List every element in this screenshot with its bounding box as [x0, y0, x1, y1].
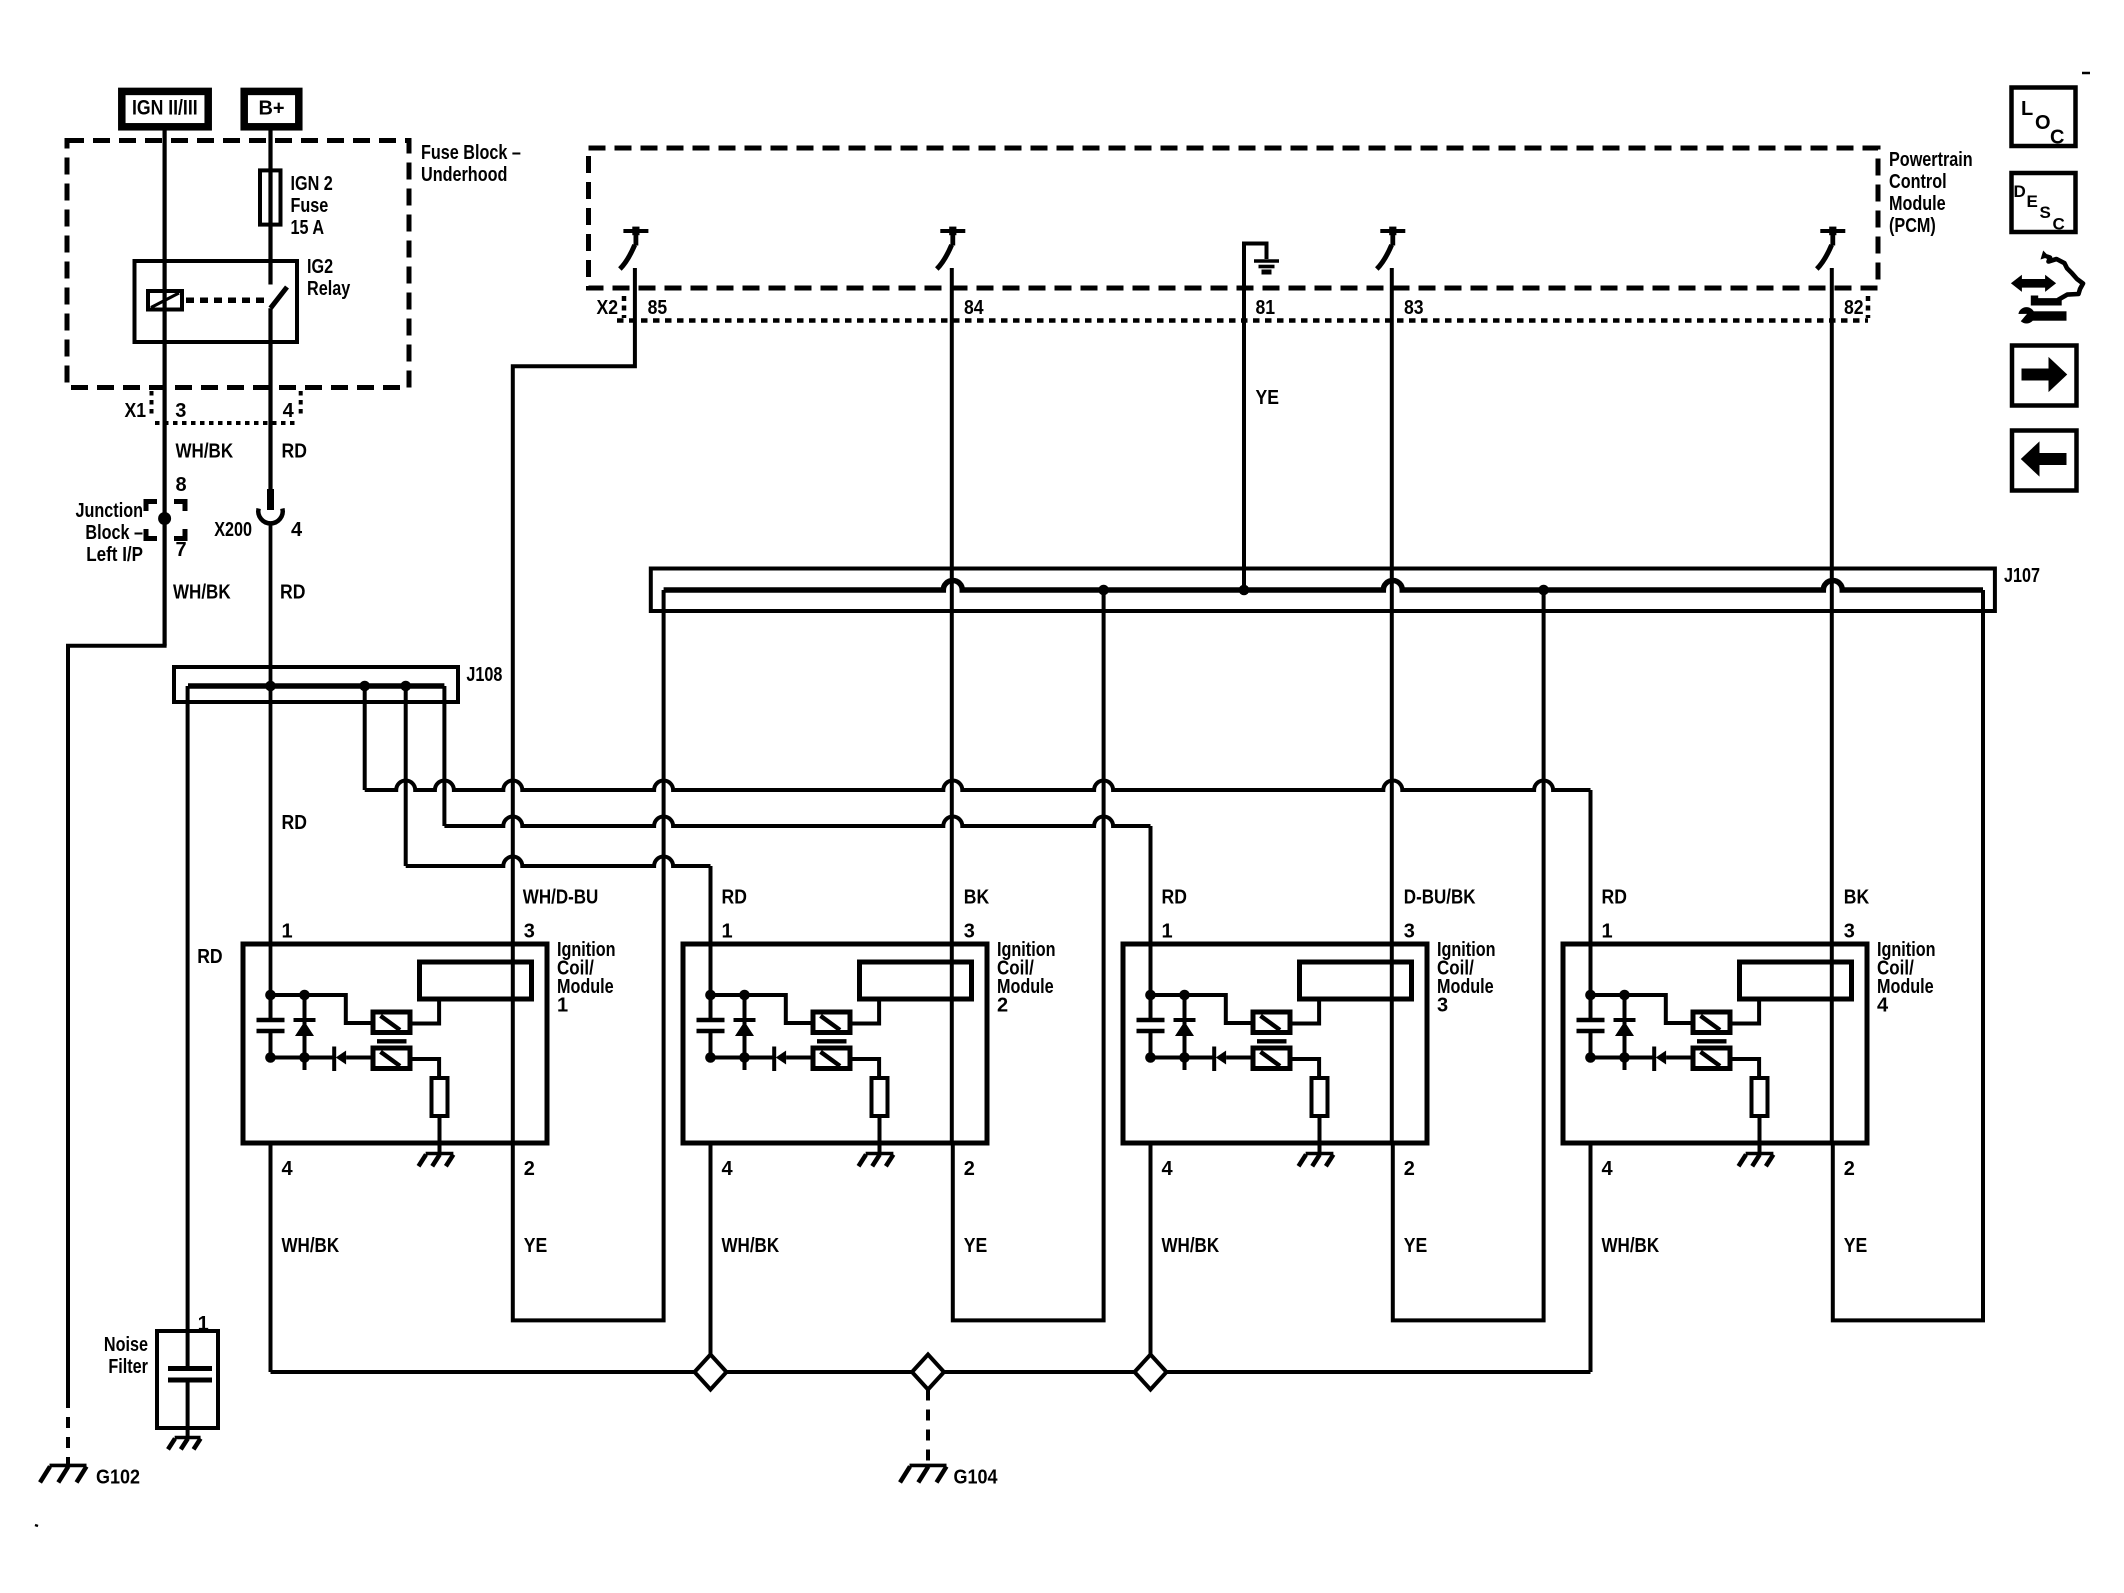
junction dot J108 drop B	[400, 681, 411, 692]
svg-text:IGN 2: IGN 2	[291, 173, 333, 195]
transformer core (module 4)	[1697, 1039, 1727, 1043]
junction dot top-zener (module 3)	[1179, 990, 1190, 1001]
svg-text:3: 3	[524, 921, 535, 943]
svg-text:4: 4	[282, 1158, 294, 1180]
transformer primary (module 4)	[1693, 1012, 1730, 1033]
svg-text:15 A: 15 A	[291, 217, 325, 239]
svg-text:8: 8	[176, 474, 187, 496]
connector X2 (dotted strip)	[617, 296, 1868, 321]
coil tower block (module 3)	[1300, 962, 1412, 999]
svg-text:4: 4	[1877, 995, 1889, 1017]
capacitor (module 4)	[1577, 995, 1605, 1058]
diode (vertical, module 1)	[294, 995, 316, 1070]
node wire bottom (module 1)	[271, 1056, 335, 1060]
transformer core (module 3)	[1257, 1039, 1287, 1043]
node wire bottom (module 2)	[711, 1056, 775, 1060]
svg-text:D-BU/BK: D-BU/BK	[1404, 887, 1476, 909]
svg-text:RD: RD	[1602, 887, 1627, 909]
capacitor (module 2)	[697, 995, 725, 1058]
splice J107 (YE bus bar)	[651, 569, 1995, 612]
junction dot J107 / module 3 YE	[1538, 585, 1549, 596]
resistor (module 4)	[1752, 1078, 1768, 1116]
svg-text:Fuse Block –: Fuse Block –	[421, 142, 521, 164]
wire secondary to resistor (module 1)	[410, 1059, 439, 1078]
artifact mark bottom-left	[35, 1525, 38, 1526]
wire BK from PCM pin 82 to ignition coil module 4 pin 3	[1830, 268, 1834, 1143]
svg-text:Control: Control	[1889, 171, 1947, 193]
diode (series, module 1)	[334, 1047, 373, 1072]
wire WH/BK ground bus (bottom)	[271, 1370, 1591, 1374]
svg-text:7: 7	[176, 539, 187, 561]
icon arrow right (next)	[2012, 346, 2077, 406]
transformer secondary (module 2)	[813, 1048, 850, 1069]
resistor (module 1)	[432, 1078, 448, 1116]
label Ignition Coil/Module 3	[1437, 939, 1496, 1017]
svg-text:WH/D-BU: WH/D-BU	[523, 887, 599, 909]
node wire top (module 1)	[271, 995, 375, 1023]
icon arrow left (previous)	[2012, 431, 2077, 491]
wire RD from relay switch to X1 pin 4	[268, 308, 272, 494]
wire YE module 2 pin 2 return to J107	[953, 590, 1104, 1320]
diode (series, module 4)	[1654, 1047, 1693, 1072]
transformer secondary (module 4)	[1693, 1048, 1730, 1069]
fuse block - underhood (dashed box)	[67, 141, 521, 388]
wire WH/BK module 2 pin 4 down	[709, 1143, 713, 1372]
svg-text:YE: YE	[964, 1235, 988, 1257]
svg-text:G104: G104	[954, 1467, 999, 1489]
svg-text:81: 81	[1256, 297, 1276, 319]
svg-text:YE: YE	[524, 1235, 548, 1257]
svg-text:4: 4	[283, 400, 295, 422]
PCM driver output (pin 85)	[620, 227, 649, 269]
PCM Powertrain Control Module (dashed box)	[589, 148, 1879, 288]
wire to G102 (dashed section)	[66, 1397, 70, 1464]
node wire bottom (module 3)	[1151, 1056, 1215, 1060]
wire RD from X200 to splice J108 and ignition coil module 1 pin 1	[269, 525, 273, 995]
diode (vertical, module 3)	[1174, 995, 1196, 1070]
svg-text:B+: B+	[258, 98, 284, 120]
connector X1 (dashed strip)	[152, 391, 301, 423]
junction dot J108 drop A	[359, 681, 370, 692]
wire primary to coil tower (module 3)	[1290, 999, 1319, 1024]
node wire top (module 4)	[1591, 995, 1695, 1023]
connector X200 (inline connector symbol)	[258, 489, 282, 523]
junction dot bottom-zener (module 4)	[1619, 1052, 1630, 1063]
junction dot top-zener (module 1)	[299, 990, 310, 1001]
icon vehicle/wrench (diagnostic link)	[2012, 251, 2083, 325]
transformer primary (module 3)	[1253, 1012, 1290, 1033]
wire primary to coil tower (module 4)	[1730, 999, 1759, 1024]
wire RD J108 to module 4 pin 1	[363, 686, 367, 790]
wire BK from PCM pin 84 to ignition coil module 2 pin 3	[950, 268, 954, 1143]
relay switch arm	[271, 287, 288, 308]
svg-text:WH/BK: WH/BK	[173, 582, 231, 604]
coil tower block (module 1)	[420, 962, 532, 999]
relay actuation dashed link	[186, 298, 264, 304]
junction dot bottom-left (module 2)	[705, 1052, 716, 1063]
power tag IGN II/III	[122, 91, 208, 126]
diode (vertical, module 4)	[1614, 995, 1636, 1070]
junction dot top-left (module 1)	[265, 990, 276, 1001]
junction dot J107 / module 2 YE	[1098, 585, 1109, 596]
label Powertrain Control Module (PCM)	[1889, 149, 1973, 237]
svg-text:RD: RD	[197, 946, 222, 968]
wire RD from B+ tag through IGN 2 fuse to relay switch contact	[268, 127, 272, 285]
svg-text:Relay: Relay	[307, 278, 351, 300]
wire RD J108 to module 3 pin 1	[442, 686, 446, 826]
svg-text:WH/BK: WH/BK	[282, 1235, 340, 1257]
power tag B+	[244, 91, 299, 126]
icon LOC (link box)	[2012, 88, 2076, 149]
svg-text:3: 3	[1437, 995, 1448, 1017]
svg-text:(PCM): (PCM)	[1889, 215, 1936, 237]
svg-text:4: 4	[1602, 1158, 1614, 1180]
svg-text:85: 85	[648, 297, 668, 319]
svg-text:4: 4	[1162, 1158, 1174, 1180]
junction dot (WH/BK at junction block)	[158, 512, 171, 525]
svg-text:1: 1	[1602, 921, 1613, 943]
wire primary to coil tower (module 1)	[410, 999, 439, 1024]
relay coil	[148, 291, 182, 310]
transformer primary (module 2)	[813, 1012, 850, 1033]
svg-text:Left I/P: Left I/P	[86, 544, 143, 566]
ignition coil/module 1 (box U1)	[243, 944, 547, 1143]
label Ignition Coil/Module 1	[557, 939, 616, 1017]
wire YE module 4 pin 2 return to J107	[1833, 590, 1983, 1320]
svg-text:Fuse: Fuse	[291, 195, 329, 217]
artifact mark top-right	[2082, 72, 2090, 75]
svg-text:RD: RD	[282, 441, 307, 463]
junction block - Left I/P (corner bracket box)	[146, 502, 157, 512]
svg-text:RD: RD	[722, 887, 747, 909]
junction dot top-left (module 2)	[705, 990, 716, 1001]
svg-text:J108: J108	[466, 664, 502, 686]
node wire top (module 3)	[1151, 995, 1255, 1023]
ground G102	[40, 1465, 87, 1482]
relay K: IG2 Relay (box)	[135, 261, 298, 342]
diode (vertical, module 2)	[734, 995, 756, 1070]
svg-text:3: 3	[964, 921, 975, 943]
svg-text:Noise: Noise	[104, 1334, 148, 1356]
svg-text:BK: BK	[964, 887, 990, 909]
wire to G104 (dashed)	[926, 1390, 930, 1465]
coil tower block (module 4)	[1740, 962, 1852, 999]
svg-text:1: 1	[198, 1313, 209, 1335]
svg-text:X2: X2	[597, 297, 619, 319]
noise filter (box)	[157, 1331, 218, 1428]
icon DESC (link box)	[2012, 173, 2076, 234]
label IGN 2 Fuse 15 A	[291, 173, 333, 239]
fuse F: IGN 2 Fuse 15 A	[260, 170, 281, 224]
ground (module 1 internal)	[419, 1154, 454, 1167]
resistor (module 3)	[1312, 1078, 1328, 1116]
svg-text:RD: RD	[282, 812, 307, 834]
wire WH/BK module 3 pin 4 down	[1149, 1143, 1153, 1372]
wire RD J108 to noise filter	[186, 686, 190, 1369]
junction dot bottom-zener (module 3)	[1179, 1052, 1190, 1063]
wire WH/BK module 1 pin 4 down	[269, 1143, 273, 1372]
wire YE module 1 pin 2 return to J107	[513, 590, 664, 1320]
node wire bottom (module 4)	[1591, 1056, 1655, 1060]
label IG2 Relay	[307, 256, 351, 300]
svg-text:2: 2	[524, 1158, 535, 1180]
junction dot bottom-zener (module 2)	[739, 1052, 750, 1063]
PCM driver output (pin 82)	[1817, 227, 1846, 269]
wire resistor to ground (module 4)	[1758, 1116, 1762, 1152]
ignition coil/module 4 (box U4)	[1563, 944, 1867, 1143]
svg-text:1: 1	[722, 921, 733, 943]
splice diamond (module 3 pin 4)	[1135, 1355, 1167, 1390]
ground (module 4 internal)	[1739, 1154, 1774, 1167]
svg-text:1: 1	[557, 995, 568, 1017]
PCM driver output (pin 83)	[1377, 227, 1406, 269]
svg-text:2: 2	[997, 995, 1008, 1017]
svg-text:Powertrain: Powertrain	[1889, 149, 1973, 171]
coil tower block (module 2)	[860, 962, 972, 999]
svg-text:YE: YE	[1844, 1235, 1868, 1257]
svg-text:D: D	[2014, 182, 2026, 201]
svg-text:4: 4	[722, 1158, 734, 1180]
svg-text:O: O	[2035, 112, 2051, 134]
capacitor (noise filter)	[168, 1369, 212, 1381]
wire RD J108 to module 2 pin 1	[404, 686, 408, 866]
ground (noise filter)	[168, 1438, 201, 1450]
wire noise filter to ground	[186, 1380, 190, 1437]
transformer core (module 1)	[377, 1039, 407, 1043]
junction dot J108 / RD feed	[265, 681, 276, 692]
ground (module 2 internal)	[859, 1154, 894, 1167]
svg-text:1: 1	[1162, 921, 1173, 943]
wire secondary to resistor (module 4)	[1730, 1059, 1759, 1078]
svg-text:3: 3	[1844, 921, 1855, 943]
label Junction Block - Left I/P	[76, 500, 144, 566]
junction dot bottom-left (module 3)	[1145, 1052, 1156, 1063]
svg-text:2: 2	[1844, 1158, 1855, 1180]
svg-text:X1: X1	[125, 400, 147, 422]
svg-text:C: C	[2050, 127, 2064, 149]
label Ignition Coil/Module 4	[1877, 939, 1936, 1017]
wire WH/BK from IGN II/III tag down through fuse block, X1 pin 3	[163, 127, 167, 646]
wire YE module 3 pin 2 return to J107	[1393, 590, 1544, 1320]
diode (series, module 3)	[1214, 1047, 1253, 1072]
svg-text:YE: YE	[1256, 387, 1280, 409]
svg-text:Module: Module	[1889, 193, 1946, 215]
svg-text:RD: RD	[280, 582, 305, 604]
wire primary to coil tower (module 2)	[850, 999, 879, 1024]
svg-text:J107: J107	[2004, 565, 2040, 587]
svg-text:3: 3	[1404, 921, 1415, 943]
wire WH/D-BU from PCM pin 85 to ignition coil module 1 pin 3	[513, 268, 635, 1143]
splice diamond (G104 tap)	[912, 1355, 944, 1390]
transformer secondary (module 3)	[1253, 1048, 1290, 1069]
svg-text:IG2: IG2	[307, 256, 333, 278]
junction dot bottom-left (module 1)	[265, 1052, 276, 1063]
junction dot top-left (module 4)	[1585, 990, 1596, 1001]
PCM internal ground symbol (pin 81)	[1244, 244, 1279, 289]
wire secondary to resistor (module 2)	[850, 1059, 879, 1078]
junction dot bottom-zener (module 1)	[299, 1052, 310, 1063]
junction dot bottom-left (module 4)	[1585, 1052, 1596, 1063]
diode (series, module 2)	[774, 1047, 813, 1072]
wire resistor to ground (module 2)	[878, 1116, 882, 1152]
svg-text:RD: RD	[1162, 887, 1187, 909]
svg-text:4: 4	[291, 519, 303, 541]
svg-text:2: 2	[964, 1158, 975, 1180]
wire resistor to ground (module 3)	[1318, 1116, 1322, 1152]
label Noise Filter	[104, 1334, 148, 1378]
wire WH/BK elbow to ground G102	[68, 644, 165, 1397]
svg-text:Filter: Filter	[108, 1356, 148, 1378]
junction dot top-left (module 3)	[1145, 990, 1156, 1001]
svg-text:Block –: Block –	[85, 522, 143, 544]
junction dot J107 / PCM pin 81 YE	[1239, 585, 1250, 596]
ground (module 3 internal)	[1299, 1154, 1334, 1167]
ignition coil/module 3 (box U3)	[1123, 944, 1427, 1143]
svg-text:C: C	[2053, 215, 2065, 234]
junction dot top-zener (module 2)	[739, 990, 750, 1001]
wire resistor to ground (module 1)	[438, 1116, 442, 1152]
wire D-BU/BK from PCM pin 83 to ignition coil module 3 pin 3	[1390, 268, 1394, 1143]
svg-text:L: L	[2021, 98, 2033, 120]
capacitor (module 1)	[257, 995, 285, 1058]
svg-text:BK: BK	[1844, 887, 1870, 909]
svg-text:E: E	[2027, 192, 2038, 211]
svg-text:82: 82	[1844, 297, 1864, 319]
svg-text:1: 1	[282, 921, 293, 943]
transformer core (module 2)	[817, 1039, 847, 1043]
svg-text:WH/BK: WH/BK	[1602, 1235, 1660, 1257]
capacitor (module 3)	[1137, 995, 1165, 1058]
wire YE from PCM pin 81 to splice J107	[1242, 288, 1246, 590]
svg-text:YE: YE	[1404, 1235, 1428, 1257]
transformer secondary (module 1)	[373, 1048, 410, 1069]
svg-text:3: 3	[175, 400, 186, 422]
splice diamond (module 2 pin 4)	[695, 1355, 727, 1390]
ignition coil/module 2 (box U2)	[683, 944, 987, 1143]
wire secondary to resistor (module 3)	[1290, 1059, 1319, 1078]
junction dot top-zener (module 4)	[1619, 990, 1630, 1001]
svg-text:84: 84	[964, 297, 984, 319]
svg-text:WH/BK: WH/BK	[1162, 1235, 1220, 1257]
svg-text:Junction: Junction	[76, 500, 144, 522]
svg-text:IGN II/III: IGN II/III	[132, 97, 198, 120]
svg-text:WH/BK: WH/BK	[176, 441, 234, 463]
svg-text:S: S	[2040, 203, 2051, 222]
svg-text:X200: X200	[214, 519, 252, 541]
svg-text:WH/BK: WH/BK	[722, 1235, 780, 1257]
svg-text:Underhood: Underhood	[421, 164, 507, 186]
resistor (module 2)	[872, 1078, 888, 1116]
wire WH/BK module 4 pin 4 down	[1589, 1143, 1593, 1372]
svg-text:G102: G102	[96, 1467, 140, 1489]
svg-text:2: 2	[1404, 1158, 1415, 1180]
ground G104	[900, 1465, 947, 1482]
label Ignition Coil/Module 2	[997, 939, 1056, 1017]
splice J108 (RD bus bar)	[174, 667, 458, 702]
transformer primary (module 1)	[373, 1012, 410, 1033]
PCM driver output (pin 84)	[937, 227, 966, 269]
svg-text:83: 83	[1404, 297, 1424, 319]
node wire top (module 2)	[711, 995, 815, 1023]
